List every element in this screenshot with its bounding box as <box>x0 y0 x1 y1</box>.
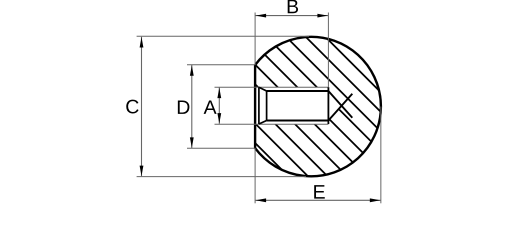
label A <box>204 100 217 113</box>
extension line D bottom <box>187 147 255 149</box>
drill point cone bottom <box>328 94 352 121</box>
arrow E left <box>256 198 267 202</box>
extension line E right (from ball tangent) <box>380 107 382 204</box>
arrow B left <box>256 14 267 18</box>
label C <box>126 100 138 114</box>
extension line B right (to hole end, crosses ball) <box>327 13 329 88</box>
extension line D top <box>187 64 255 66</box>
arrow E right <box>370 198 381 202</box>
arrow A top <box>217 88 221 99</box>
extension line C top <box>137 35 309 37</box>
dimension line E <box>255 199 381 201</box>
drilled hole top line <box>267 90 329 92</box>
ball outline with flat face <box>255 37 381 177</box>
thread major diameter thin line (bottom), doubles as A bottom extension line <box>215 123 329 125</box>
label D <box>178 100 190 113</box>
dimension line D <box>191 65 193 148</box>
arrow D bottom <box>190 137 194 148</box>
extension line B left / face top <box>254 13 256 66</box>
label B <box>288 0 298 13</box>
hole end vertical <box>327 87 329 124</box>
arrow A bottom <box>217 113 221 124</box>
chamfer end vertical <box>266 91 268 121</box>
arrow D top <box>190 65 194 76</box>
dimension line A <box>218 87 220 123</box>
extension line C bottom <box>137 176 306 178</box>
chamfer diagonal bottom <box>259 121 267 125</box>
arrow C top <box>140 37 144 48</box>
dimension line B <box>255 15 328 17</box>
thread major diameter thin line (top), doubles as A top extension line <box>215 86 329 88</box>
arrow C bottom <box>140 166 144 177</box>
drilled hole bottom line <box>267 120 329 122</box>
chamfer diagonal top <box>259 87 267 91</box>
drill point cone top <box>328 91 352 118</box>
dimension line C <box>141 37 143 177</box>
hatching (section lines) <box>88 0 510 209</box>
arrow B right <box>317 14 328 18</box>
chamfer entry vertical <box>258 87 260 124</box>
label E <box>314 185 325 198</box>
extension line E left / below face <box>254 148 256 203</box>
